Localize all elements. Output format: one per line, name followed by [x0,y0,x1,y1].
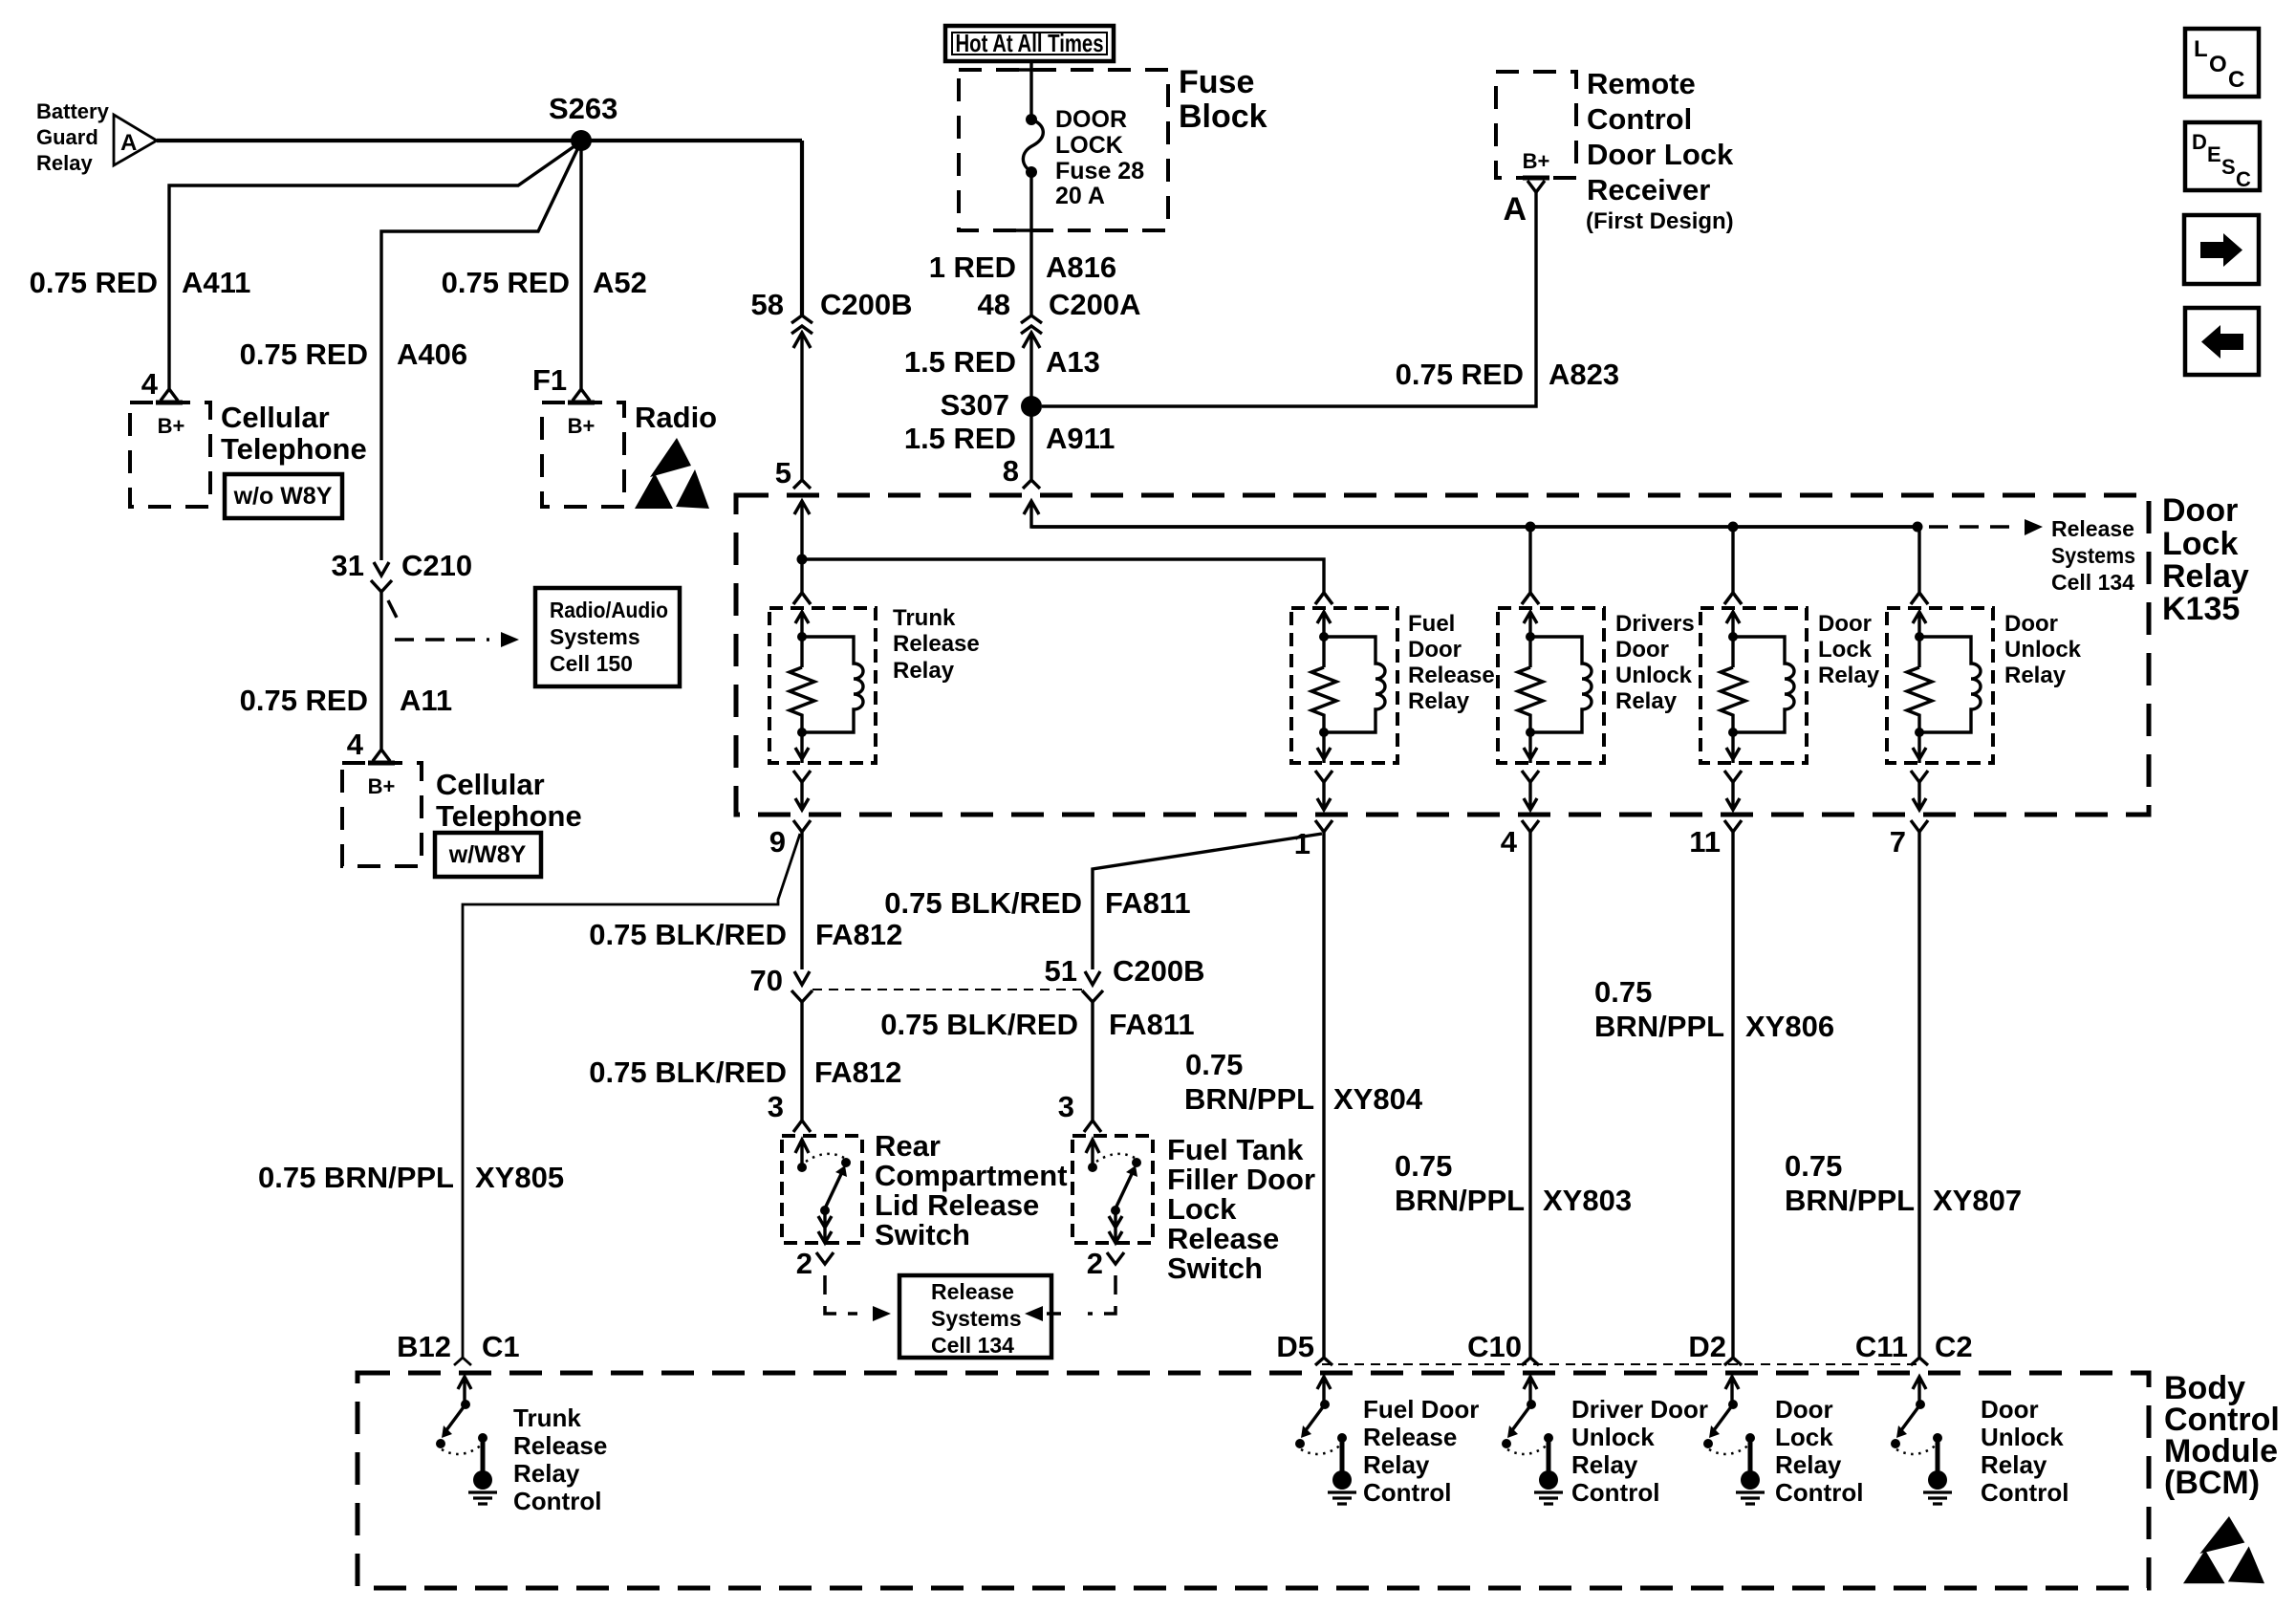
svg-text:Cell 134: Cell 134 [2051,570,2134,595]
svg-text:Fuse 28: Fuse 28 [1055,158,1144,185]
wire 8 into box corner to bus [1024,501,1917,527]
svg-text:S: S [2221,155,2236,179]
svg-text:Relay: Relay [36,151,93,175]
svg-text:Relay: Relay [893,658,955,684]
svg-text:C10: C10 [1467,1330,1522,1363]
svg-text:C200B: C200B [1113,954,1205,988]
svg-text:BRN/PPL: BRN/PPL [1184,1082,1314,1116]
wire fa811 to fuel switch [1084,1002,1101,1132]
svg-text:BRN/PPL: BRN/PPL [1785,1184,1915,1217]
svg-text:1.5 RED: 1.5 RED [904,422,1016,455]
door lock relay K135 box [736,495,2149,815]
label 0.75 BLK RED FA812 row1 [589,918,902,951]
release systems cell 134 label right [2051,516,2135,595]
svg-text:Control: Control [1363,1478,1451,1507]
svg-text:Cell 134: Cell 134 [931,1333,1014,1358]
svg-text:0.75 BRN/PPL: 0.75 BRN/PPL [258,1161,454,1194]
fuel door release relay control label [1363,1395,1479,1507]
wire xy806 [1724,832,1742,1365]
door lock relay label [1818,611,1880,688]
svg-text:Block: Block [1179,98,1267,135]
svg-text:C2: C2 [1935,1330,1973,1363]
release systems cell 134 box [899,1275,1051,1358]
svg-text:D: D [2192,130,2207,154]
label 51 C200B [1045,954,1205,988]
svg-text:31: 31 [332,549,364,582]
svg-text:(BCM): (BCM) [2164,1465,2260,1501]
svg-text:0.75 RED: 0.75 RED [30,266,158,299]
svg-text:Relay: Relay [1363,1450,1430,1479]
svg-text:B+: B+ [158,414,185,438]
svg-text:C200A: C200A [1049,288,1141,321]
fuel tank filler door lock release switch [1072,1136,1153,1264]
dashed continuation to release systems [1929,519,2043,535]
svg-text:Lock: Lock [1167,1192,1237,1226]
label 0.75 BRN PPL XY804 [1184,1048,1423,1116]
svg-text:Rear: Rear [875,1129,941,1163]
label 1.5 RED A13 [904,345,1100,379]
cellular telephone 1 label [221,401,367,466]
svg-text:4: 4 [347,728,364,761]
svg-text:XY804: XY804 [1333,1082,1423,1116]
door lock relay [1700,593,1807,832]
driver door unlock relay control switch [1502,1377,1563,1504]
label 0.75 BRN PPL XY806 [1594,975,1834,1043]
svg-text:Lock: Lock [1818,637,1873,663]
svg-text:Drivers: Drivers [1615,611,1695,637]
fuse block dashed box [959,70,1168,230]
rear compartment lid release switch [782,1136,862,1264]
fuel door release relay [1291,593,1397,832]
svg-text:Door Lock: Door Lock [1587,138,1734,171]
svg-text:DOOR: DOOR [1055,106,1127,133]
trunk release relay [769,593,876,832]
label 0.75 BLK RED FA811 row2 [880,1008,1194,1041]
svg-text:Door: Door [1981,1395,2039,1424]
radio audio systems cell 150 box [535,588,680,686]
label 1.5 RED A911 [904,422,1116,455]
svg-text:C: C [2236,167,2251,191]
wire 5 drop to relay box [793,333,811,489]
svg-text:Release: Release [1167,1222,1279,1255]
svg-text:Fuse: Fuse [1179,64,1254,100]
door unlock relay label [2004,611,2082,688]
svg-text:Fuel Tank: Fuel Tank [1167,1133,1304,1166]
svg-text:Relay: Relay [1615,688,1678,714]
door lock relay control switch [1703,1377,1765,1504]
battery guard relay label [36,99,110,175]
svg-text:0.75 BLK/RED: 0.75 BLK/RED [589,1055,787,1089]
label 31 C210 [332,549,473,582]
svg-text:0.75 BLK/RED: 0.75 BLK/RED [884,886,1082,920]
wire drivers drop [1522,527,1539,604]
cellular telephone 1 box [130,402,210,507]
svg-text:Release: Release [1408,663,1495,688]
svg-text:Relay: Relay [2162,558,2249,595]
svg-text:0.75 RED: 0.75 RED [240,684,368,717]
wire to C210 [371,141,581,592]
svg-text:Lid Release: Lid Release [875,1188,1039,1222]
label 1 RED A816 [929,250,1116,284]
wire xy807 [1911,832,1928,1365]
svg-text:Door: Door [1818,611,1872,637]
svg-text:FA812: FA812 [815,918,902,951]
dashed branch to radio audio systems [388,600,519,647]
svg-text:Switch: Switch [1167,1251,1263,1285]
left arrow box [2185,308,2259,375]
label 0.75 BLK RED FA812 row2 [589,1055,901,1089]
remote receiver label [1586,67,1734,234]
bus2 wire to fuel relay [802,559,1332,604]
rear compartment lid release switch label [875,1129,1068,1251]
fuel door release relay label [1408,611,1495,714]
drivers door unlock relay label [1615,611,1695,714]
fuse block label [1179,64,1267,135]
svg-text:4: 4 [141,367,159,401]
svg-text:0.75 RED: 0.75 RED [442,266,570,299]
svg-text:Door: Door [1775,1395,1833,1424]
svg-text:Relay: Relay [1408,688,1470,714]
radio box [542,402,624,507]
radio esd symbol [635,438,709,509]
trunk release relay control switch [436,1377,497,1504]
svg-text:Radio: Radio [635,401,717,434]
fuel tank filler door lock release switch label [1167,1133,1315,1285]
bcm esd symbol [2183,1516,2264,1583]
svg-text:Relay: Relay [1571,1450,1638,1479]
label 0.75 RED A52 [442,266,647,299]
wire A52 drop from S263 [573,141,590,401]
svg-text:A: A [120,130,137,156]
svg-text:Trunk: Trunk [513,1403,581,1432]
svg-text:4: 4 [1501,825,1518,859]
svg-text:K135: K135 [2162,591,2240,627]
svg-text:3: 3 [1058,1090,1074,1123]
svg-text:B12: B12 [397,1330,451,1363]
door unlock relay control switch [1891,1377,1952,1504]
cellular telephone 2 label [436,768,582,833]
thin dashed connector plane C200B [812,989,1082,990]
svg-text:Release: Release [893,631,980,657]
svg-text:Fuel: Fuel [1408,611,1455,637]
svg-text:Driver Door: Driver Door [1571,1395,1708,1424]
label 0.75 RED A11 [240,684,453,717]
svg-text:1: 1 [1294,827,1310,860]
trunk release relay control label [513,1403,607,1515]
svg-text:51: 51 [1045,954,1077,988]
driver door unlock relay control label [1571,1395,1708,1507]
wire 9 diagonal to xy805 run [454,834,800,1365]
svg-text:F1: F1 [532,363,567,397]
svg-text:C210: C210 [401,549,472,582]
svg-text:1 RED: 1 RED [929,250,1016,284]
svg-text:BRN/PPL: BRN/PPL [1594,1010,1724,1043]
svg-text:Relay: Relay [1981,1450,2047,1479]
svg-text:2: 2 [1087,1247,1103,1280]
svg-text:1.5 RED: 1.5 RED [904,345,1016,379]
svg-text:B+: B+ [568,414,596,438]
svg-text:XY806: XY806 [1745,1010,1834,1043]
door unlock relay [1887,593,1993,832]
svg-text:C11: C11 [1855,1330,1908,1363]
svg-text:w/o W8Y: w/o W8Y [233,483,333,510]
svg-text:0.75 RED: 0.75 RED [240,337,368,371]
svg-text:Receiver: Receiver [1587,173,1710,207]
svg-text:A406: A406 [397,337,467,371]
dashed wire rear switch to release systems [825,1275,891,1321]
svg-text:Door: Door [1615,637,1669,663]
svg-text:Fuel Door: Fuel Door [1363,1395,1479,1424]
svg-text:Trunk: Trunk [893,605,956,631]
svg-text:70: 70 [750,964,783,997]
wire unlock drop [1911,527,1928,604]
thin dashed connector plane BCM [1322,1363,1919,1365]
label C11 C2 [1855,1330,1973,1363]
wire fa812 down from 9 [791,832,812,1002]
svg-text:Relay: Relay [2004,663,2067,688]
body control module label [2164,1370,2280,1501]
wire fa812 to rear switch [793,1002,811,1132]
svg-text:Systems: Systems [931,1306,1022,1331]
svg-text:B+: B+ [368,774,396,798]
svg-text:Telephone: Telephone [436,799,582,833]
hot at all times box [945,26,1114,61]
svg-text:Control: Control [1775,1478,1863,1507]
svg-text:Guard: Guard [36,125,98,149]
connector A receiver [1503,181,1545,228]
svg-text:11: 11 [1689,825,1721,859]
node S263 [549,92,617,151]
svg-text:Radio/Audio: Radio/Audio [550,598,668,622]
svg-text:(First Design): (First Design) [1586,208,1734,234]
svg-text:Systems: Systems [2051,543,2135,568]
svg-text:Unlock: Unlock [1615,663,1693,688]
svg-text:w/W8Y: w/W8Y [448,841,527,868]
svg-text:Switch: Switch [875,1218,970,1251]
junction dot drivers [1526,522,1536,533]
wire A11 to cellular 2 [373,592,390,761]
svg-text:Door: Door [1408,637,1462,663]
right arrow box [2184,215,2259,284]
wire into fuse [1016,61,1047,120]
svg-text:Filler Door: Filler Door [1167,1163,1315,1196]
svg-text:Relay: Relay [513,1459,580,1488]
svg-text:Hot At All Times: Hot At All Times [956,29,1104,57]
svg-text:2: 2 [796,1247,812,1280]
svg-text:FA811: FA811 [1105,886,1191,920]
svg-text:Systems: Systems [550,624,640,649]
remote receiver box [1496,72,1576,178]
svg-text:D5: D5 [1276,1330,1314,1363]
svg-text:Unlock: Unlock [1571,1423,1655,1451]
svg-text:Door: Door [2162,492,2238,529]
svg-text:XY807: XY807 [1933,1184,2022,1217]
svg-text:48: 48 [978,288,1010,321]
svg-text:FA811: FA811 [1109,1008,1195,1041]
svg-text:Unlock: Unlock [2004,637,2082,663]
svg-text:5: 5 [775,456,791,490]
svg-text:FA812: FA812 [814,1055,901,1089]
label 0.75 BRN PPL XY807 [1785,1149,2022,1217]
svg-text:S263: S263 [549,92,617,125]
wire 1 diagonal to fa811 [1082,834,1322,1002]
wire A816 [1016,172,1047,315]
svg-text:D2: D2 [1688,1330,1726,1363]
svg-text:Cellular: Cellular [221,401,330,434]
svg-text:L: L [2194,36,2208,62]
battery guard relay triangle A [114,115,157,165]
connector 48 C200A [978,288,1141,348]
label B12 C1 [397,1330,520,1363]
svg-text:0.75: 0.75 [1594,975,1652,1009]
svg-text:0.75 RED: 0.75 RED [1396,358,1524,391]
svg-text:Release: Release [2051,516,2134,541]
svg-text:BRN/PPL: BRN/PPL [1395,1184,1525,1217]
svg-text:Release: Release [513,1431,607,1460]
wire xy803 [1522,832,1539,1365]
wire 58 C200B drop [800,141,804,315]
bus wire inside relay box [1031,525,1917,528]
svg-text:A411: A411 [182,266,250,299]
svg-text:Cellular: Cellular [436,768,545,801]
svg-text:Release: Release [1363,1423,1457,1451]
svg-text:Compartment: Compartment [875,1159,1068,1192]
fuse 28 symbol [1023,114,1043,178]
cellular telephone 2 box [342,763,422,866]
svg-text:9: 9 [769,825,786,859]
svg-text:0.75: 0.75 [1785,1149,1842,1183]
svg-text:A: A [1503,191,1527,228]
svg-text:Telephone: Telephone [221,432,367,466]
svg-text:LOCK: LOCK [1055,132,1123,159]
svg-text:7: 7 [1890,825,1906,859]
svg-text:A823: A823 [1549,358,1619,391]
label 0.75 RED A411 [30,266,251,299]
w/o W8Y box [225,474,342,518]
svg-text:Control: Control [1571,1478,1659,1507]
svg-text:A816: A816 [1046,250,1116,284]
wire to cellular telephone 1 [161,141,581,401]
junction dot trunk bus2 [797,555,808,565]
svg-text:20 A: 20 A [1055,183,1105,209]
drivers door unlock relay [1498,593,1604,832]
fuel door release relay control switch [1295,1377,1356,1504]
label 0.75 BRN PPL XY805 [258,1161,564,1194]
svg-text:8: 8 [1003,454,1019,488]
svg-text:O: O [2209,52,2227,77]
wire 5 into box with arrow [793,501,811,604]
svg-text:E: E [2207,142,2221,166]
label 0.75 RED A823 [1396,358,1620,391]
door unlock relay control label [1981,1395,2069,1507]
svg-text:0.75 BLK/RED: 0.75 BLK/RED [589,918,787,951]
svg-text:Relay: Relay [1818,663,1880,688]
svg-text:C: C [2228,67,2244,93]
svg-text:C1: C1 [482,1330,520,1363]
svg-text:S307: S307 [941,388,1009,422]
svg-text:Control: Control [1981,1478,2069,1507]
svg-text:58: 58 [751,288,784,321]
junction dot unlock [1913,522,1923,533]
svg-text:XY805: XY805 [475,1161,564,1194]
wire A823 from receiver to S307 [1042,192,1536,406]
svg-text:0.75 BLK/RED: 0.75 BLK/RED [880,1008,1078,1041]
trunk release relay label [893,605,980,684]
label 0.75 RED A406 [240,337,468,371]
svg-text:XY803: XY803 [1543,1184,1632,1217]
svg-text:Cell 150: Cell 150 [550,651,633,676]
wire A13 to S307 [1023,333,1040,489]
wire top bus from triangle to corner [157,139,802,142]
connector 58 C200B [751,288,913,348]
node S307 [941,388,1042,422]
svg-text:3: 3 [768,1090,784,1123]
wire lock drop [1724,527,1742,604]
dashed wire fuel switch to release systems [1025,1275,1116,1321]
svg-text:A13: A13 [1046,345,1100,379]
svg-text:0.75: 0.75 [1185,1048,1243,1081]
svg-text:Battery: Battery [36,99,110,123]
svg-text:A911: A911 [1046,422,1115,455]
DESC box [2185,122,2260,191]
svg-text:A52: A52 [593,266,647,299]
door lock relay K135 label [2162,492,2249,627]
fuse 28 label [1055,106,1144,209]
svg-text:B+: B+ [1523,149,1550,173]
svg-text:Control: Control [1587,102,1692,136]
svg-text:Remote: Remote [1587,67,1696,100]
svg-text:Door: Door [2004,611,2058,637]
w/W8Y box [435,833,541,877]
svg-text:Unlock: Unlock [1981,1423,2064,1451]
junction dot lock [1728,522,1739,533]
svg-text:Release: Release [931,1279,1014,1304]
svg-text:Lock: Lock [2162,526,2238,562]
label 0.75 BLK RED FA811 row1 [884,886,1190,920]
svg-text:Lock: Lock [1775,1423,1833,1451]
door lock relay control label [1775,1395,1863,1507]
body control module box [357,1373,2149,1588]
svg-text:A11: A11 [400,684,452,717]
svg-text:C200B: C200B [820,288,913,321]
wire xy804 [1315,832,1332,1365]
svg-text:0.75: 0.75 [1395,1149,1452,1183]
LOC box [2185,29,2259,97]
svg-text:Relay: Relay [1775,1450,1842,1479]
svg-text:Control: Control [513,1487,601,1515]
label 0.75 BRN PPL XY803 [1395,1149,1632,1217]
